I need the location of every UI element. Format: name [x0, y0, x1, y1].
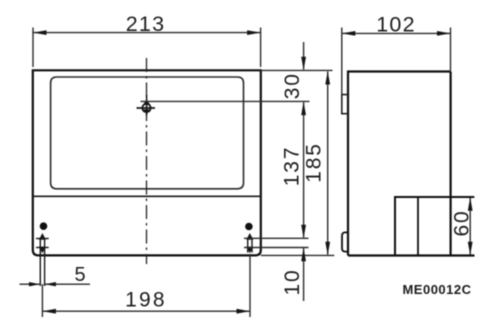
svg-text:30: 30 [281, 72, 304, 99]
svg-text:10: 10 [281, 269, 304, 296]
svg-text:ME00012C: ME00012C [402, 282, 471, 297]
svg-text:213: 213 [126, 12, 165, 36]
svg-text:102: 102 [376, 13, 415, 37]
svg-text:60: 60 [451, 210, 474, 237]
svg-text:5: 5 [74, 264, 85, 286]
svg-text:198: 198 [125, 289, 167, 312]
svg-text:137: 137 [281, 146, 304, 186]
svg-text:185: 185 [303, 142, 326, 182]
